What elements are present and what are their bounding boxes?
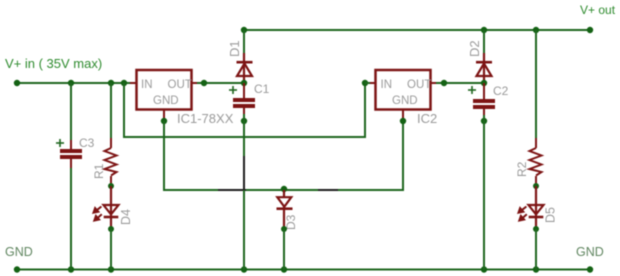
junction ground rail / C1 bbox=[241, 266, 247, 272]
junction ground rail / D3 bbox=[281, 266, 287, 272]
wire dark overlay on C1 ground wire bbox=[243, 156, 245, 190]
IC1 pin OUT stub bbox=[192, 82, 199, 84]
IC2 pin GND stub bbox=[402, 110, 404, 120]
junction ground rail / D5 bbox=[533, 266, 539, 272]
svg-text:V+ in ( 35V max): V+ in ( 35V max) bbox=[5, 56, 102, 71]
resistor R1 bbox=[105, 138, 117, 186]
svg-text:OUT: OUT bbox=[168, 79, 192, 91]
junction IC1 OUT dot bbox=[201, 80, 207, 86]
wire IC2 OUT to C2/D2 column bbox=[436, 82, 484, 84]
svg-text:GND: GND bbox=[392, 95, 418, 107]
op-amp IC2 regulator box bbox=[376, 70, 431, 110]
diode D1 bbox=[237, 53, 253, 83]
C2 plus sign bbox=[468, 86, 476, 94]
junction D4 / ground wire bbox=[108, 226, 114, 232]
svg-text:OUT: OUT bbox=[407, 79, 431, 91]
junction top rail / D1 bbox=[241, 27, 247, 33]
junction ground rail / D4 bbox=[108, 266, 114, 272]
node GND right terminal dot bbox=[587, 266, 593, 272]
wire C3 branch vertical bbox=[70, 83, 72, 146]
IC1 pin GND stub bbox=[163, 110, 165, 120]
junction R1 / D4 bbox=[108, 183, 114, 189]
svg-text:GND: GND bbox=[576, 245, 604, 259]
node V+ in terminal dot bbox=[14, 80, 20, 86]
wire R2 branch from top rail bbox=[535, 30, 537, 141]
wire C1 to ground rail bbox=[243, 114, 245, 270]
wire input feed to IC2 IN (under IC1) bbox=[124, 83, 365, 137]
wire IC2 IN stub bbox=[365, 82, 371, 84]
svg-text:GND: GND bbox=[5, 245, 33, 259]
C3 plus sign bbox=[56, 139, 64, 147]
resistor R2 bbox=[530, 138, 542, 186]
capacitor C2 bbox=[473, 83, 495, 116]
node GND left terminal dot bbox=[14, 266, 20, 272]
svg-text:C2: C2 bbox=[493, 84, 509, 98]
junction top rail / D2 bbox=[481, 27, 487, 33]
node V+ out terminal dot bbox=[587, 27, 593, 33]
D5 emission arrows bbox=[519, 207, 527, 221]
junction IC1 GND dot bbox=[161, 118, 167, 124]
junction IC2 GND dot bbox=[400, 118, 406, 124]
svg-text:IC1-78XX: IC1-78XX bbox=[177, 111, 234, 126]
led D5 bbox=[529, 186, 544, 229]
junction ground rail / C2 bbox=[481, 266, 487, 272]
junction D1 / C1 / OUT1 bbox=[241, 80, 247, 86]
junction C2 bottom bbox=[481, 118, 487, 124]
D4 emission arrows bbox=[94, 207, 102, 221]
svg-text:C3: C3 bbox=[79, 136, 95, 150]
wire D5 to ground rail bbox=[535, 229, 537, 270]
svg-text:D5: D5 bbox=[544, 207, 558, 223]
wire input rail bbox=[17, 82, 137, 84]
C1 plus sign bbox=[229, 86, 237, 94]
junction input rail / R1 bbox=[108, 80, 114, 86]
junction IC2 IN wire end bbox=[362, 80, 368, 86]
capacitor C3 bbox=[60, 140, 82, 168]
wire D1 top lead from rail bbox=[243, 30, 245, 54]
svg-text:V+ out: V+ out bbox=[580, 3, 616, 17]
svg-text:R1: R1 bbox=[92, 163, 106, 179]
svg-text:D2: D2 bbox=[467, 40, 482, 57]
wire R1 branch vertical top bbox=[110, 83, 112, 141]
svg-text:IN: IN bbox=[381, 79, 393, 91]
junction R2 / D5 bbox=[533, 183, 539, 189]
wire D4 to ground rail bbox=[110, 229, 112, 270]
junction IC2 OUT dot bbox=[441, 80, 447, 86]
wire IC1 OUT to C1/D1 column bbox=[197, 82, 244, 84]
junction input rail / C3 bbox=[68, 80, 74, 86]
diode D3 bbox=[277, 190, 293, 229]
diode D2 bbox=[476, 53, 492, 83]
svg-text:D4: D4 bbox=[119, 209, 133, 225]
wire D3 to ground rail bbox=[283, 229, 285, 270]
wire dark overlay segment right bbox=[318, 189, 338, 191]
svg-text:R2: R2 bbox=[515, 161, 529, 177]
IC2 pin IN stub bbox=[370, 82, 376, 84]
junction D2 / C2 / OUT2 bbox=[481, 80, 487, 86]
led D4 bbox=[104, 186, 119, 229]
junction D3 anode bbox=[281, 226, 287, 232]
op-amp IC1 regulator box bbox=[137, 70, 192, 110]
svg-text:IN: IN bbox=[141, 79, 153, 91]
svg-text:IC2: IC2 bbox=[417, 111, 437, 126]
wire top output rail bbox=[244, 29, 590, 31]
capacitor C1 bbox=[233, 83, 255, 116]
junction input rail / IC2 feed bbox=[121, 80, 127, 86]
junction D5 / ground wire bbox=[533, 226, 539, 232]
svg-text:GND: GND bbox=[153, 95, 179, 107]
wire GND-pins net IC1 to IC2 bbox=[164, 121, 403, 190]
junction GND net / D3 bbox=[281, 186, 287, 192]
svg-text:C1: C1 bbox=[254, 82, 270, 96]
IC2 pin OUT stub bbox=[431, 82, 438, 84]
wire C2 to ground rail bbox=[483, 115, 485, 270]
junction top rail / R2 branch bbox=[533, 27, 539, 33]
wire D2 top lead from rail bbox=[483, 30, 485, 54]
wire dark overlay segment left of D3 column bbox=[218, 189, 246, 191]
IC1 pin IN stub bbox=[130, 82, 137, 84]
wire bottom ground rail bbox=[17, 269, 590, 271]
junction C1 bottom bbox=[241, 118, 247, 124]
svg-text:D1: D1 bbox=[227, 40, 242, 57]
junction ground rail / C3 bbox=[68, 266, 74, 272]
